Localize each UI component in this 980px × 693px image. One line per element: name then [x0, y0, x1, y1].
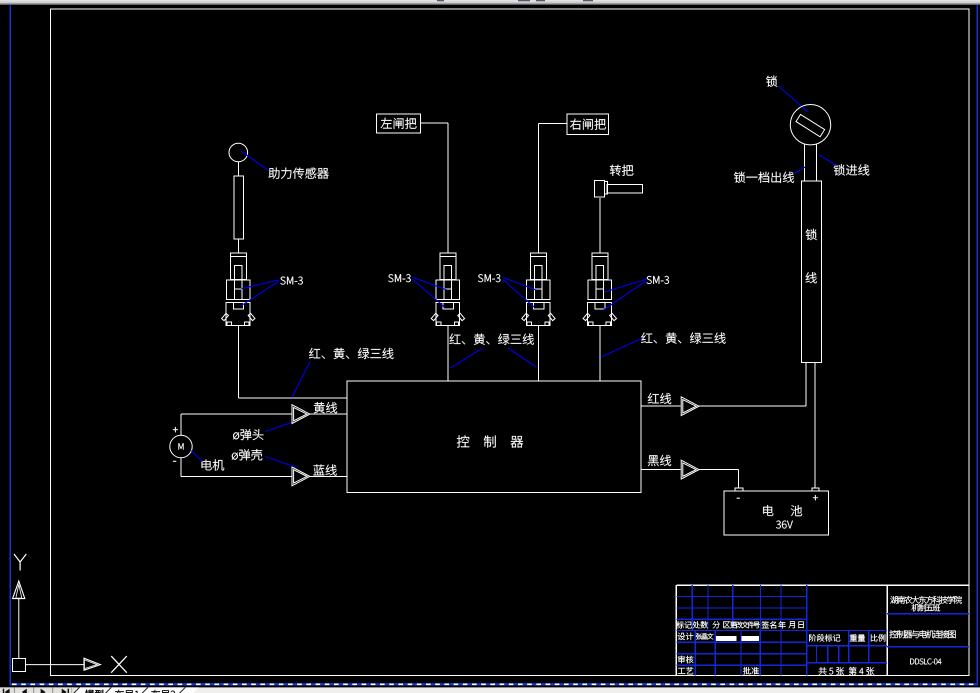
label 锁一档出线	[734, 172, 794, 183]
wire lock input to battery +	[814, 363, 816, 488]
title school name	[890, 596, 962, 611]
socket notch	[233, 303, 243, 309]
leader to sensor	[241, 151, 269, 170]
title row 标记处数分区更改文件号签名年月日	[676, 621, 803, 628]
plug cap	[592, 253, 608, 257]
UCS origin box	[12, 659, 25, 672]
title row 设计 + name	[678, 633, 714, 640]
label 红、黄、绿三线 #1	[309, 348, 393, 359]
throttle collar	[605, 182, 608, 195]
lock wire block	[801, 181, 821, 363]
label SM-3 #4	[647, 276, 669, 284]
label 左闸把	[381, 118, 417, 129]
socket notch	[533, 303, 543, 309]
battery + nub	[812, 488, 819, 491]
label 锁	[766, 76, 777, 87]
socket body	[226, 303, 250, 326]
socket body	[526, 303, 550, 326]
wire red to lock block	[699, 363, 806, 407]
wire motor+ to yellow connector	[181, 414, 291, 435]
leader ø弹壳	[265, 457, 296, 468]
leader SM-3 #2b	[413, 279, 445, 308]
label 红、黄、绿三线 #3	[641, 333, 725, 344]
socket wings	[222, 313, 229, 320]
leader three-wire #2b	[508, 348, 537, 367]
wire stick to connector J1	[237, 239, 239, 253]
label 蓝线	[313, 465, 336, 476]
battery BT1 box	[724, 491, 828, 535]
wire controller to black connector	[641, 469, 681, 471]
socket notch	[595, 303, 605, 309]
leader SM-3 #1b	[241, 281, 279, 306]
socket feet	[437, 322, 441, 326]
leader SM-3 #1a	[242, 280, 279, 289]
plug housing	[436, 280, 460, 299]
label 电池	[763, 505, 802, 516]
lock keyhole slot	[796, 114, 825, 136]
wire J2 to controller	[447, 326, 449, 381]
battery - sign	[737, 497, 740, 500]
leader SM-3 #4a	[604, 279, 646, 292]
label 控制器	[457, 435, 523, 447]
bullet connector blue	[292, 467, 310, 486]
label 红、黄、绿三线 #2	[449, 334, 533, 345]
leader three-wire #3	[601, 339, 642, 358]
motor M1 circle	[170, 435, 192, 457]
label 电机	[202, 459, 225, 470]
title row 工艺 批准	[678, 667, 759, 674]
label 锁 (vertical)	[806, 229, 817, 240]
plug housing	[226, 280, 250, 299]
window right border	[976, 5, 978, 686]
leader 锁	[779, 86, 808, 112]
UCS X axis arrow	[26, 658, 101, 670]
power-assist sensor ball	[229, 143, 248, 162]
throttle grip	[595, 181, 605, 197]
label 线 (vertical)	[806, 272, 817, 283]
wire blue to controller	[310, 475, 347, 477]
motor M letter	[179, 443, 184, 449]
sensor stick body	[234, 176, 244, 239]
leader 电机	[191, 451, 202, 462]
socket wings	[522, 313, 529, 320]
label 转把	[610, 165, 633, 176]
label ø弹头	[233, 429, 263, 440]
leader 锁进线	[819, 155, 836, 166]
connector J4 SM-3	[583, 253, 616, 325]
label 锁进线	[834, 164, 870, 175]
UCS Y axis arrow	[13, 581, 25, 659]
plug pin	[234, 266, 241, 300]
socket wings	[431, 313, 438, 320]
plug body	[530, 257, 546, 280]
UCS X label	[111, 656, 127, 673]
leader SM-3 #2a	[413, 277, 447, 290]
label SM-3 #3	[478, 274, 500, 282]
top bar glyph remnants	[437, 0, 593, 1]
plug cap	[230, 253, 246, 257]
label 助力传感器	[269, 168, 329, 179]
label SM-3 #1	[280, 277, 302, 285]
bullet connector black	[681, 460, 699, 479]
window left border	[9, 5, 11, 686]
wire lock gear-1 output	[805, 363, 807, 407]
plug body	[592, 257, 608, 280]
title row 审核	[678, 656, 693, 664]
battery - nub	[735, 488, 743, 491]
leader ø弹头	[265, 423, 291, 432]
socket wings	[583, 313, 590, 320]
viewport dashed selection line	[10, 683, 978, 685]
signature white box 1	[716, 636, 736, 641]
plug cap	[440, 253, 456, 257]
label 红线	[648, 393, 671, 404]
wire J3 to controller	[537, 326, 539, 381]
connector J2 SM-3	[431, 253, 464, 325]
title drawing name 控制器与电机连接图	[890, 630, 956, 638]
window top bar	[0, 0, 980, 5]
title drawing number DDSLC-04	[910, 659, 941, 665]
throttle bar	[607, 185, 642, 194]
label 黄线	[314, 402, 337, 413]
leader SM-3 #4b	[603, 281, 647, 311]
battery + sign	[813, 495, 818, 500]
wire controller to red connector	[641, 405, 681, 407]
socket feet	[527, 322, 531, 326]
socket body	[436, 303, 460, 326]
motor + terminal	[173, 427, 178, 432]
wire 左闸把 to connector J2	[421, 123, 448, 253]
label box 右闸把	[567, 114, 609, 135]
plug pin	[444, 266, 451, 300]
plug body	[440, 257, 456, 280]
title 共5张 第4张	[819, 667, 875, 675]
title 阶段标记 重量 比例	[809, 634, 885, 641]
label 黑线	[648, 455, 671, 466]
label 右闸把	[570, 119, 606, 130]
plug body	[230, 257, 246, 280]
wire J1 to controller	[238, 326, 347, 398]
leader three-wire #2a	[450, 348, 483, 368]
bottom tab bar	[0, 687, 980, 693]
wire black to battery -	[699, 470, 739, 488]
connector J3 SM-3	[522, 253, 555, 325]
UCS Y label	[14, 554, 26, 571]
lock neck	[805, 144, 817, 181]
wire yellow to controller	[310, 413, 347, 415]
title block outline	[676, 585, 969, 676]
wire motor- to blue connector	[181, 458, 291, 477]
plug housing	[527, 280, 551, 299]
bullet connector yellow	[292, 405, 310, 424]
plug pin	[535, 266, 542, 300]
lock circle	[790, 105, 830, 145]
bullet connector red	[681, 397, 699, 416]
leader SM-3 #3a	[502, 277, 536, 290]
label SM-3 #2	[388, 274, 410, 282]
leader 锁一档出线	[794, 167, 806, 174]
plug pin	[596, 266, 603, 300]
leader SM-3 #3b	[502, 279, 534, 307]
label ø弹壳	[232, 449, 262, 460]
controller U1 box	[347, 381, 641, 493]
label box 左闸把	[377, 114, 421, 133]
title block grid	[676, 585, 969, 676]
plug cap	[530, 253, 546, 257]
label 36V	[776, 521, 793, 529]
wire J4 to controller	[599, 326, 601, 381]
socket feet	[589, 322, 593, 326]
tab nav buttons	[0, 687, 73, 693]
connector J1 SM-3	[222, 253, 255, 325]
socket feet	[227, 322, 231, 326]
plug housing	[588, 280, 612, 299]
socket body	[588, 303, 612, 326]
leader three-wire #1	[292, 362, 310, 398]
signature white box 2	[741, 636, 758, 641]
motor - terminal	[173, 460, 176, 463]
wire ball to stick	[237, 162, 239, 176]
sheet tabs	[72, 687, 200, 693]
socket notch	[443, 303, 453, 309]
wire 右闸把 to connector J3	[538, 124, 567, 254]
wire 转把 to connector J4	[599, 198, 601, 253]
